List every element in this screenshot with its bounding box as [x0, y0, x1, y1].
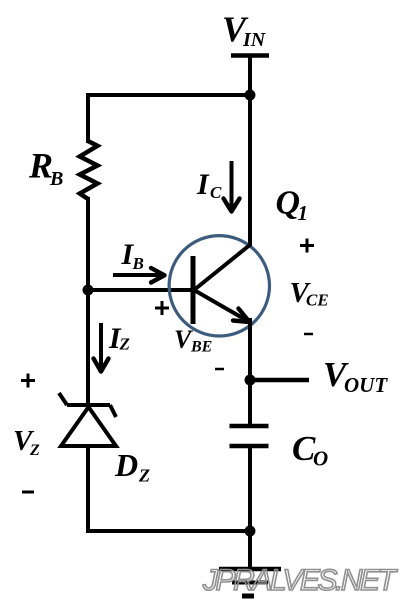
- zener diode DZ cathode bar: [67, 403, 110, 407]
- VBE minus sign: [215, 368, 224, 371]
- wire: bottom rail: [86, 529, 250, 533]
- ground bar 2: [232, 581, 268, 585]
- capacitor CO top plate: [230, 424, 269, 429]
- svg-text:I: I: [196, 168, 210, 201]
- wire: left vertical RB to zener: [86, 197, 90, 407]
- wire: ground stem: [248, 531, 252, 569]
- node bottom junction: [245, 526, 256, 537]
- zener DZ triangle: [61, 407, 116, 446]
- zener DZ right hook: [110, 405, 116, 417]
- VIN terminal bar: [231, 53, 269, 58]
- capacitor CO bottom plate: [230, 444, 269, 449]
- transistor Q1 emitter stroke with arrow: [194, 290, 250, 322]
- svg-text:BE: BE: [190, 339, 212, 356]
- VZ minus sign: [22, 491, 34, 494]
- svg-text:C: C: [210, 183, 222, 202]
- ground bar 1: [219, 567, 281, 572]
- svg-text:Z: Z: [119, 335, 130, 354]
- wire: zener to bottom rail: [86, 444, 90, 533]
- svg-text:1: 1: [298, 201, 309, 225]
- current arrow IB: [113, 273, 164, 277]
- resistor RB: [80, 141, 98, 199]
- transistor Q1 circle: [169, 236, 269, 336]
- transistor Q1 collector stroke: [194, 244, 251, 290]
- current arrow IC: [230, 161, 234, 211]
- wire: left vertical above RB: [86, 93, 90, 143]
- svg-text:JPRALVES.NET: JPRALVES.NET: [202, 564, 399, 597]
- zener DZ left hook: [59, 393, 67, 405]
- ground bar 3: [242, 594, 254, 599]
- VZ plus sign: [21, 379, 35, 382]
- wire: emitter down to VOUT node: [248, 318, 252, 428]
- svg-text:Z: Z: [138, 466, 150, 486]
- wire: base horizontal: [88, 288, 191, 292]
- wire: VOUT horizontal stub: [250, 378, 309, 383]
- svg-text:CE: CE: [306, 291, 329, 310]
- node junction base: [83, 285, 94, 296]
- svg-text:Q: Q: [276, 185, 301, 222]
- transistor Q1 base bar: [191, 256, 196, 324]
- svg-text:O: O: [313, 447, 328, 471]
- node junction top: [245, 90, 256, 101]
- VCE minus sign: [304, 333, 313, 336]
- current arrow IZ: [99, 323, 103, 371]
- svg-text:Z: Z: [29, 442, 40, 459]
- svg-text:IN: IN: [242, 29, 267, 51]
- svg-text:B: B: [49, 168, 63, 190]
- wire: capacitor to bottom rail: [248, 446, 252, 533]
- wire: top horizontal to RB: [86, 93, 250, 97]
- VCE plus sign: [300, 244, 314, 247]
- wire: VIN terminal down to transistor collector: [248, 56, 252, 247]
- svg-text:B: B: [132, 254, 144, 273]
- svg-text:OUT: OUT: [344, 373, 388, 397]
- VBE plus sign: [155, 307, 169, 310]
- svg-text:D: D: [114, 447, 138, 483]
- node VOUT junction: [245, 375, 256, 386]
